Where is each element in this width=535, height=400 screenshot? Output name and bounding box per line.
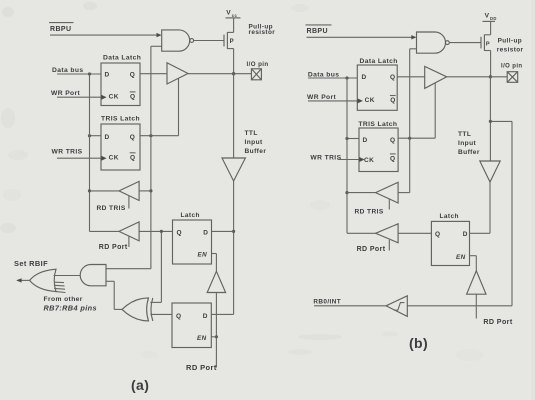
label From other RB7:RB4 pins (44, 296, 97, 313)
wire node to I/O pad (b) (490, 76, 507, 78)
wire data bus into D of data latch (57, 73, 101, 75)
svg-text:CK: CK (109, 154, 119, 161)
xor-gate G3 mismatch detector (114, 298, 153, 321)
wire U4 output vertical (233, 181, 235, 314)
node U4 output / latch D junction (232, 230, 235, 233)
wire U9 D from TTL net (211, 313, 233, 315)
svg-text:CK: CK (365, 97, 375, 104)
svg-text:CK: CK (109, 93, 119, 100)
and-gate A2 (weak pull-up enable) (417, 32, 446, 53)
svg-text:Latch: Latch (181, 212, 200, 219)
latch U11 Data Latch (b) (357, 58, 397, 110)
pin CK arrow of U13 (359, 157, 364, 162)
wire U12 output to I/O node (447, 76, 491, 78)
wire U11 Q to output buffer U12 (397, 76, 425, 78)
svg-text:TTL: TTL (245, 130, 258, 137)
wire G2 upper input from TRIS Q net (106, 268, 151, 270)
buffer U8 RD Port strobe (207, 271, 225, 292)
wire U17 EN to buffer U18 (470, 256, 477, 271)
wire U5 enable stub (128, 196, 130, 209)
svg-text:resistor: resistor (249, 29, 276, 36)
wire U2 enable from TRIS Q (178, 78, 180, 135)
wire U9 Q to XOR input (151, 313, 173, 315)
svg-text:RD Port: RD Port (483, 318, 512, 326)
net RBPU (active-low) label (49, 23, 74, 33)
svg-text:Pull-up: Pull-up (498, 38, 522, 45)
svg-text:Q: Q (130, 154, 135, 161)
svg-text:Q: Q (130, 71, 135, 78)
svg-text:D: D (105, 134, 110, 141)
wire U16 output to data bus (347, 232, 376, 234)
value label Pull-up resistor (249, 23, 276, 36)
svg-text:WR TRIS: WR TRIS (52, 148, 83, 155)
buffer U2 output driver (167, 63, 188, 84)
latch U7 input latch (173, 212, 212, 264)
pin CK arrow of U1 (101, 95, 106, 100)
svg-text:Input: Input (245, 139, 264, 146)
svg-text:Q: Q (176, 313, 181, 320)
svg-text:RBPU: RBPU (50, 26, 71, 33)
wire U6 output to data bus (90, 230, 120, 232)
node I/O pin junction (232, 72, 235, 75)
svg-text:Q: Q (130, 134, 135, 141)
wire RBPU to AND gate A1 (50, 33, 162, 37)
wire G2 lower input from XOR (106, 281, 114, 309)
power Vdd (483, 12, 497, 34)
svg-text:RD TRIS: RD TRIS (355, 208, 384, 215)
svg-text:D: D (203, 229, 208, 236)
svg-text:resistor: resistor (497, 47, 524, 54)
svg-text:P: P (486, 41, 490, 47)
svg-text:D: D (362, 74, 367, 81)
svg-text:RB0/INT: RB0/INT (313, 299, 341, 306)
buffer U4 TTL input buffer (222, 158, 245, 181)
wire Schmitt input from pin rail (407, 305, 512, 307)
svg-text:WR Port: WR Port (51, 90, 81, 97)
buffer U18 RD Port strobe (b) (467, 271, 486, 294)
wire A1 output to Q1 gate (194, 40, 224, 42)
pin CK arrow of U3 (101, 156, 106, 161)
svg-text:P: P (230, 39, 234, 45)
label TTL Input Buffer (245, 130, 267, 155)
wire WR TRIS to U3 CK (57, 157, 101, 159)
buffer U14 TTL input buffer (b) (480, 161, 500, 182)
buffer U19 Schmitt trigger RB0/INT (386, 296, 407, 317)
wire G1 inputs from other RB7:RB4 pins (54, 282, 65, 292)
svg-text:From other: From other (44, 296, 83, 303)
buffer U16 RD Port tri-state (b) (376, 224, 399, 243)
svg-text:WR Port: WR Port (307, 94, 337, 101)
svg-text:CK: CK (364, 157, 374, 164)
wire I/O node down to U14 (489, 77, 491, 161)
wire data bus to U3 D (90, 135, 102, 137)
svg-text:Data Latch: Data Latch (360, 58, 398, 65)
wire data bus to U13 D (347, 138, 359, 140)
svg-text:D: D (105, 71, 110, 78)
wire G3 upper input from pin-value node (150, 231, 161, 302)
wire U5 input from TRIS Q net (139, 190, 151, 192)
wire U12 enable from TRIS Q (434, 83, 436, 138)
svg-text:WR TRIS: WR TRIS (310, 154, 341, 161)
pin CK arrow of U11 (358, 98, 363, 103)
svg-text:(b): (b) (409, 335, 428, 351)
svg-text:Set RBIF: Set RBIF (14, 259, 48, 268)
wire I/O node down to U4 (233, 74, 235, 158)
wire U3 Q to enable riser (140, 135, 179, 137)
svg-text:EN: EN (197, 335, 207, 342)
wire Q1 drain to I/O node (233, 49, 235, 74)
wire RD Port strobe vertical (b) (475, 294, 477, 318)
svg-text:EN: EN (198, 252, 208, 259)
node TRIS Q / RD TRIS junction (149, 189, 152, 192)
inverter bubble on A1 output (190, 39, 194, 43)
svg-text:Data Latch: Data Latch (103, 54, 141, 61)
svg-text:(a): (a) (131, 377, 149, 393)
svg-text:RD TRIS: RD TRIS (97, 205, 126, 212)
svg-text:Q: Q (177, 229, 182, 236)
svg-text:EN: EN (456, 254, 466, 261)
transistor Q2 p-channel pull-up (481, 35, 491, 51)
latch U3 TRIS Latch (101, 116, 140, 170)
svg-text:Input: Input (458, 140, 477, 147)
buffer U5 RD TRIS tri-state (119, 181, 139, 200)
wire Set RBIF output (16, 278, 29, 282)
node bus / TRIS D junction (b) (345, 137, 348, 140)
svg-text:D: D (463, 231, 468, 238)
wire A2 output to Q2 gate (449, 42, 481, 44)
node TRIS Q junction (149, 134, 152, 137)
wire Q2 drain to I/O node (490, 51, 492, 77)
net RBPU label (b) (306, 25, 332, 35)
node data bus / D junction (88, 72, 91, 75)
svg-text:Q: Q (390, 155, 395, 162)
node bus / TRIS D junction (88, 134, 91, 137)
svg-text:RD Port: RD Port (357, 246, 386, 253)
wire G2 output to G1 input (54, 275, 81, 277)
wire U15 output to data bus (347, 192, 376, 194)
node bus / RD TRIS output junction (b) (345, 191, 348, 194)
power Vcc (226, 10, 241, 33)
wire U7 D from TTL net (212, 230, 234, 232)
wire U7 EN to buffer U8 (212, 254, 217, 272)
latch U1 Data Latch (101, 54, 141, 105)
transistor Q1 p-channel pull-up (224, 32, 234, 49)
wire U6 enable stub (128, 236, 130, 247)
I/O pin pad symbol (247, 61, 269, 80)
svg-text:I/O pin: I/O pin (501, 63, 522, 69)
wire U15 enable stub (388, 199, 390, 210)
wire RBPU to AND gate A2 (307, 35, 417, 39)
I/O pin pad symbol (b) (501, 63, 522, 82)
latch U9 old-value latch (172, 303, 211, 348)
svg-text:D: D (363, 137, 368, 144)
wire RD Port strobe vertical (215, 293, 217, 368)
wire U16 input from latch Q (398, 232, 431, 234)
node RD Port / EN junction (215, 335, 218, 338)
wire RB0/INT output (314, 305, 386, 307)
svg-text:RD Port: RD Port (186, 363, 217, 372)
wire U2 output to I/O node (188, 73, 234, 75)
buffer U12 output driver (b) (425, 66, 447, 88)
buffer U15 RD TRIS tri-state (b) (376, 182, 399, 203)
wire data bus into D of data latch (b) (308, 77, 357, 79)
svg-text:Buffer: Buffer (245, 148, 267, 155)
and-gate A1 (weak pull-up enable) (162, 30, 190, 51)
svg-text:Q: Q (390, 74, 395, 81)
svg-text:cc: cc (232, 13, 238, 18)
wire U14 output to latch D (470, 182, 491, 233)
node pin-value junction (160, 230, 163, 233)
wire A1 lower input from TRIS Q net (151, 45, 162, 47)
svg-text:DD: DD (490, 16, 497, 21)
wire U9 EN from RD Port net (211, 336, 216, 338)
or-gate G1 RBIF combine (30, 269, 56, 291)
wire node to I/O pad (234, 73, 252, 75)
wire U16 enable stub (388, 240, 390, 251)
latch U13 TRIS Latch (b) (358, 121, 398, 172)
svg-text:TRIS Latch: TRIS Latch (101, 116, 140, 123)
wire U6 input from latch Q (139, 230, 172, 232)
svg-text:RBPU: RBPU (307, 28, 328, 35)
and-gate G2 change detect gate (80, 265, 106, 286)
node bus / RD TRIS output junction (88, 189, 91, 192)
value label Pull-up resistor (b) (497, 38, 524, 54)
svg-text:I/O pin: I/O pin (247, 61, 269, 68)
node data bus / D junction (b) (345, 76, 348, 79)
svg-text:D: D (203, 313, 208, 320)
wire U1 Q to output buffer U2 (140, 73, 167, 75)
svg-text:TTL: TTL (458, 131, 471, 138)
svg-text:Q: Q (435, 231, 440, 238)
inverter bubble on A2 output (446, 41, 450, 45)
svg-text:RD Port: RD Port (99, 244, 128, 251)
wire pin branch over to right rail (490, 121, 512, 305)
svg-text:Data bus: Data bus (52, 67, 83, 74)
svg-text:V: V (226, 10, 231, 17)
wire data bus vertical net (89, 74, 91, 231)
svg-text:Buffer: Buffer (458, 149, 480, 156)
wire U13 Q to enable riser (398, 137, 435, 139)
svg-text:V: V (485, 12, 490, 19)
wire WR Port to U11 CK (308, 100, 357, 102)
svg-text:Latch: Latch (440, 213, 459, 220)
wire U15 input from TRIS Q net (398, 192, 410, 194)
wire TRIS-Q vertical net (b) (409, 49, 411, 193)
svg-text:Q: Q (390, 97, 395, 104)
buffer U6 RD Port tri-state (119, 222, 139, 241)
wire WR TRIS to U13 CK (338, 159, 360, 161)
node pin branch to Schmitt path (489, 120, 492, 123)
svg-text:RB7:RB4 pins: RB7:RB4 pins (44, 304, 97, 313)
latch U17 input latch (b) (431, 213, 469, 266)
wire WR Port to U1 CK (57, 96, 101, 98)
wire TRIS-Q vertical net (150, 46, 152, 268)
svg-text:Q: Q (390, 137, 395, 144)
wire U5 output to data bus (90, 190, 120, 192)
node TRIS Q junction (b) (408, 137, 411, 140)
label TTL Input Buffer (b) (458, 131, 480, 156)
svg-text:TRIS Latch: TRIS Latch (358, 121, 397, 128)
wire A2 lower input from TRIS Q net (410, 48, 417, 50)
svg-text:Q: Q (130, 93, 135, 100)
node I/O pin junction (b) (489, 75, 492, 78)
wire data bus vertical net (b) (346, 78, 348, 233)
